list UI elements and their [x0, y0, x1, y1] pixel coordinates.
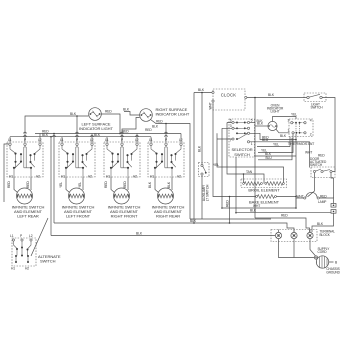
wire clock WHT lead down to bake element: [209, 102, 257, 196]
wire broil left terminal drop: [243, 173, 245, 183]
svg-text:H2: H2: [25, 267, 29, 271]
wire left stub from L1 of left rear: [4, 144, 9, 202]
infinite switch and element RIGHT FRONT: [104, 138, 141, 219]
svg-text:BLK: BLK: [70, 112, 77, 116]
svg-text:LIGHT: LIGHT: [271, 110, 280, 114]
svg-text:CORD: CORD: [318, 250, 328, 254]
svg-text:BLOCK: BLOCK: [320, 233, 331, 237]
svg-text:1: 1: [288, 129, 290, 133]
svg-text:WHT: WHT: [253, 204, 260, 208]
svg-text:TAN: TAN: [246, 170, 253, 174]
svg-text:BLK: BLK: [167, 181, 171, 188]
svg-text:H1: H1: [61, 175, 65, 179]
svg-text:RED: RED: [26, 181, 30, 188]
wire y219 horizontal: [190, 218, 271, 220]
svg-text:P: P: [76, 138, 79, 142]
svg-text:BLK: BLK: [42, 133, 49, 137]
svg-text:BLK: BLK: [268, 93, 275, 97]
wire U1 pilot riser to left indicator light: [25, 112, 89, 143]
wire right light RED lead to x190 drop: [151, 120, 191, 220]
wire door switch left lead down to lamp left: [308, 173, 315, 197]
connector plate lower: [331, 210, 336, 214]
svg-text:RIGHT FRONT: RIGHT FRONT: [111, 214, 138, 219]
svg-text:H2: H2: [177, 175, 181, 179]
svg-text:5: 5: [251, 118, 253, 122]
riser to bottom bus B (blk feed): [50, 136, 52, 236]
svg-text:LEFT REAR: LEFT REAR: [17, 214, 39, 219]
svg-text:BLK: BLK: [190, 219, 197, 223]
svg-text:RED: RED: [7, 181, 11, 188]
wire BLU leg: [258, 138, 292, 160]
svg-text:P: P: [24, 138, 27, 142]
svg-text:RED: RED: [123, 181, 127, 188]
svg-text:P: P: [121, 138, 124, 142]
svg-text:BLK: BLK: [148, 181, 152, 188]
selector left stubs: [217, 123, 232, 140]
infinite switch and element LEFT REAR: [7, 138, 45, 219]
svg-text:CLOCK: CLOCK: [221, 92, 236, 97]
svg-text:H2: H2: [88, 175, 92, 179]
wire U2 pilot riser: [76, 115, 78, 142]
svg-text:YEL: YEL: [291, 113, 297, 117]
wire thermostat 2 lead down (to bake right / lamp): [295, 134, 297, 208]
infinite switch and element RIGHT REAR: [148, 138, 185, 219]
svg-text:RED: RED: [318, 154, 325, 158]
svg-text:YEL: YEL: [59, 182, 63, 188]
bus B to terminal block: [51, 232, 275, 236]
svg-text:L2: L2: [29, 234, 33, 238]
svg-text:WHT: WHT: [209, 102, 213, 109]
chassis ground: [316, 256, 340, 274]
wire TAN to broil: [227, 123, 264, 184]
svg-text:SWITCH: SWITCH: [310, 163, 323, 167]
wire RED drop to bus A: [225, 196, 230, 224]
wire YEL selector to broil right: [213, 133, 284, 183]
svg-text:H1: H1: [106, 175, 110, 179]
svg-text:LT SWITCH: LT SWITCH: [206, 184, 210, 201]
selector lead WHT to door switch: [250, 138, 313, 168]
svg-text:SWITCH: SWITCH: [40, 259, 56, 264]
left surface indicator light: [79, 108, 113, 131]
BLK bus L1 feed: [10, 133, 151, 142]
wire U4 pilot riser: [165, 123, 167, 143]
selector right top lead to x255 vertical: [250, 119, 264, 123]
right surface indicator light: [140, 107, 190, 121]
svg-text:RED: RED: [145, 128, 152, 132]
svg-text:YEL: YEL: [213, 163, 219, 167]
svg-text:1: 1: [251, 142, 253, 146]
svg-text:BLK: BLK: [280, 134, 287, 138]
svg-text:BROIL ELEMENT: BROIL ELEMENT: [248, 187, 280, 192]
svg-text:INDICATOR LIGHT: INDICATOR LIGHT: [156, 112, 190, 117]
svg-text:LEFT FRONT: LEFT FRONT: [66, 214, 91, 219]
svg-text:3: 3: [230, 124, 232, 128]
RED bus L2 feed: [35, 128, 181, 142]
svg-text:SWITCH: SWITCH: [311, 106, 324, 110]
svg-text:BLK: BLK: [198, 88, 205, 92]
svg-text:BLK: BLK: [198, 145, 202, 152]
wire YEL oven light to thermostat: [273, 113, 298, 122]
svg-text:BLU: BLU: [266, 156, 273, 160]
svg-text:B: B: [335, 261, 338, 265]
svg-text:P: P: [165, 138, 168, 142]
svg-text:LAMP: LAMP: [318, 200, 326, 204]
svg-text:BLK: BLK: [94, 133, 101, 137]
x255 vertical (blk): [254, 97, 256, 218]
wire BLK stub oven light: [255, 122, 268, 127]
svg-text:H2: H2: [36, 175, 40, 179]
svg-text:BLK: BLK: [136, 232, 143, 236]
wire YEL thermostat lower lead: [257, 137, 290, 147]
svg-text:GROUND: GROUND: [326, 270, 340, 274]
svg-text:BLU: BLU: [262, 138, 269, 142]
wire BLK into clock: [194, 88, 212, 93]
riser to bottom bus A (red feed): [53, 133, 55, 223]
wire WHT line: [222, 204, 296, 208]
wire left light to red bus: [101, 110, 120, 135]
svg-text:BLK: BLK: [317, 222, 324, 226]
svg-text:BLK: BLK: [257, 119, 264, 123]
svg-text:H1: H1: [11, 267, 15, 271]
wire lamp right to plates: [319, 198, 333, 204]
infinite switch and element LEFT FRONT: [59, 138, 95, 219]
svg-text:4: 4: [310, 119, 312, 123]
svg-text:RED: RED: [104, 181, 108, 188]
svg-text:SWITCH: SWITCH: [234, 152, 250, 157]
svg-text:RED: RED: [281, 214, 288, 218]
svg-text:RED: RED: [225, 200, 229, 207]
svg-text:P: P: [20, 234, 23, 238]
svg-text:2: 2: [310, 133, 312, 137]
wire stub into right light: [123, 108, 140, 116]
wire BLK oven light to thermostat 1: [276, 129, 290, 138]
wire x222 selector to WHT line: [221, 128, 223, 209]
supply cord wires: [279, 243, 331, 258]
selector lead to thermostat leg: [250, 133, 297, 140]
ground clamp symbol: [314, 256, 317, 259]
wire x236 selector to BLK line: [235, 157, 237, 214]
svg-text:RED: RED: [105, 110, 112, 114]
wire BLK thermostat leg: [255, 152, 296, 156]
wire plate lower down to BLK y226: [312, 213, 334, 232]
wire BLK to light switch: [245, 93, 307, 99]
svg-text:H2: H2: [133, 175, 137, 179]
wire door switch right lead down: [331, 173, 334, 198]
svg-text:H1: H1: [9, 175, 13, 179]
wire BLK line to connector plate: [236, 209, 331, 213]
leader line alternate switch: [31, 218, 48, 256]
wire into aux switch top: [198, 92, 203, 165]
svg-text:RIGHT REAR: RIGHT REAR: [156, 214, 180, 219]
svg-text:INDICATOR LIGHT: INDICATOR LIGHT: [79, 126, 113, 131]
svg-text:YEL: YEL: [78, 182, 82, 188]
svg-text:YEL: YEL: [273, 143, 279, 147]
wire lamp left to WHT line: [295, 198, 304, 209]
svg-text:BLK: BLK: [152, 125, 159, 129]
wire light switch to door switch (right edge): [322, 98, 335, 172]
svg-text:L1: L1: [10, 234, 14, 238]
svg-text:3: 3: [288, 119, 290, 123]
svg-text:6: 6: [230, 118, 232, 122]
bus A to terminal block: [54, 219, 294, 232]
wire U3 pilot riser to right light: [122, 118, 159, 143]
wire YEL 2 thermostat leg: [258, 134, 293, 153]
wire RED line to terminal block: [255, 214, 310, 233]
bus crossover humps: [24, 132, 168, 137]
svg-text:BLK: BLK: [250, 209, 257, 213]
svg-text:WHT: WHT: [305, 151, 312, 155]
svg-text:BLK: BLK: [123, 108, 130, 112]
svg-text:H1: H1: [150, 175, 154, 179]
wire aux switch bottom to y219: [201, 175, 203, 219]
svg-text:RED: RED: [156, 120, 163, 124]
connector plate upper: [331, 204, 336, 208]
wire vertical x194 down to bus A: [193, 93, 195, 224]
